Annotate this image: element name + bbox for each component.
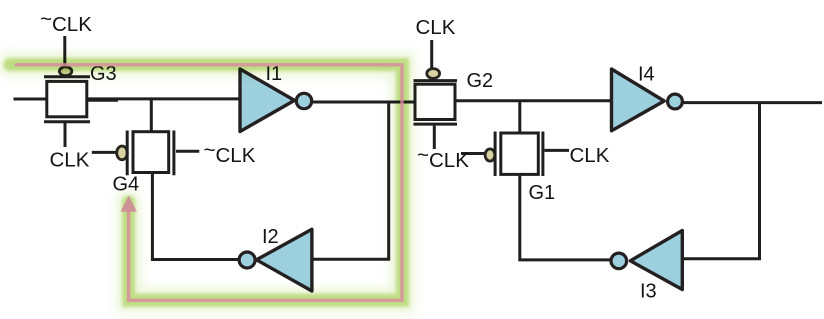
- G1 left bar: [494, 132, 497, 177]
- G4 right bar: [172, 131, 175, 176]
- svg-text:G1: G1: [529, 182, 556, 204]
- G2 gate circle: [427, 69, 440, 79]
- inverter I2 triangle body: [257, 229, 312, 291]
- G4 left bar: [126, 131, 129, 176]
- G3 top bar: [44, 75, 90, 78]
- wire junction main to G4 top: [150, 99, 153, 132]
- svg-text:I3: I3: [640, 280, 657, 302]
- inverter I3 triangle body: [630, 231, 682, 290]
- pink arrowhead pointing up at G4: [121, 196, 137, 212]
- inverter bubble: [611, 253, 627, 269]
- G1 gate circle: [485, 149, 495, 161]
- wire I1 output down to I2 input: [312, 102, 389, 259]
- G3 bottom bar: [44, 120, 90, 123]
- wire G4 right bar to ~CLK label: [176, 150, 199, 153]
- green highlighter annotation (outer glow): [10, 65, 403, 301]
- G4 box: [133, 132, 169, 173]
- wire G3 bottom stub to CLK label: [64, 123, 67, 147]
- svg-text:I2: I2: [262, 226, 279, 248]
- transmission gate G1: [461, 132, 569, 177]
- wire CLK label to G4 circle: [92, 151, 117, 154]
- G2 bottom bar: [414, 123, 458, 126]
- inverter I4 triangle body: [612, 69, 665, 131]
- wire overdraw stroke (hand-drawn): [87, 99, 118, 102]
- inverter I2: [239, 229, 312, 291]
- inverter I1: [240, 69, 312, 132]
- wire junction main to G1 top: [518, 101, 521, 134]
- svg-text:CLK: CLK: [570, 144, 610, 167]
- wire G1 right bar to CLK label: [545, 149, 570, 152]
- wire G4 bottom loop to I2 output bubble: [152, 173, 239, 260]
- G4 gate circle: [117, 146, 128, 160]
- G3 gate circle: [59, 67, 71, 76]
- G2 top bar: [414, 79, 458, 82]
- wire I1 output to G2 input: [311, 101, 415, 104]
- wire input left to G3: [14, 98, 48, 101]
- inverter I4: [612, 69, 683, 131]
- wire I4 output to right edge: [682, 101, 822, 104]
- wire G3 output to I1 input: [87, 97, 241, 100]
- transmission gate G4: [92, 131, 200, 176]
- wire right branch down to I3 input: [684, 103, 760, 259]
- inverter bubble: [668, 94, 683, 109]
- wire G1 bottom loop to I3 output bubble: [520, 174, 610, 260]
- inverter I1 triangle body: [240, 69, 295, 132]
- transmission gate G3: [44, 36, 90, 147]
- svg-text:CLK: CLK: [416, 16, 456, 39]
- G1 box: [501, 133, 539, 174]
- inverter bubble: [239, 252, 255, 268]
- transmission gate G2: [414, 40, 458, 149]
- wire G2 bottom stub to ~CLK label: [433, 126, 436, 149]
- wire CLK stub down to G2 gate circle: [430, 40, 433, 68]
- inverter bubble: [296, 93, 311, 108]
- wire ~CLK label to G1 circle: [461, 152, 486, 155]
- G1 right bar: [541, 132, 544, 177]
- green highlighter annotation (core band): [10, 65, 403, 301]
- G3 box: [47, 81, 87, 116]
- inverter I3: [611, 231, 682, 290]
- pink annotation line: [16, 65, 402, 300]
- svg-text:CLK: CLK: [50, 149, 90, 172]
- wire ~CLK stub down to G3 gate circle: [63, 36, 66, 66]
- svg-text:I4: I4: [638, 64, 655, 86]
- wire G2 output to I4 input: [456, 99, 612, 102]
- svg-text:G2: G2: [467, 70, 494, 92]
- G2 box: [415, 84, 455, 119]
